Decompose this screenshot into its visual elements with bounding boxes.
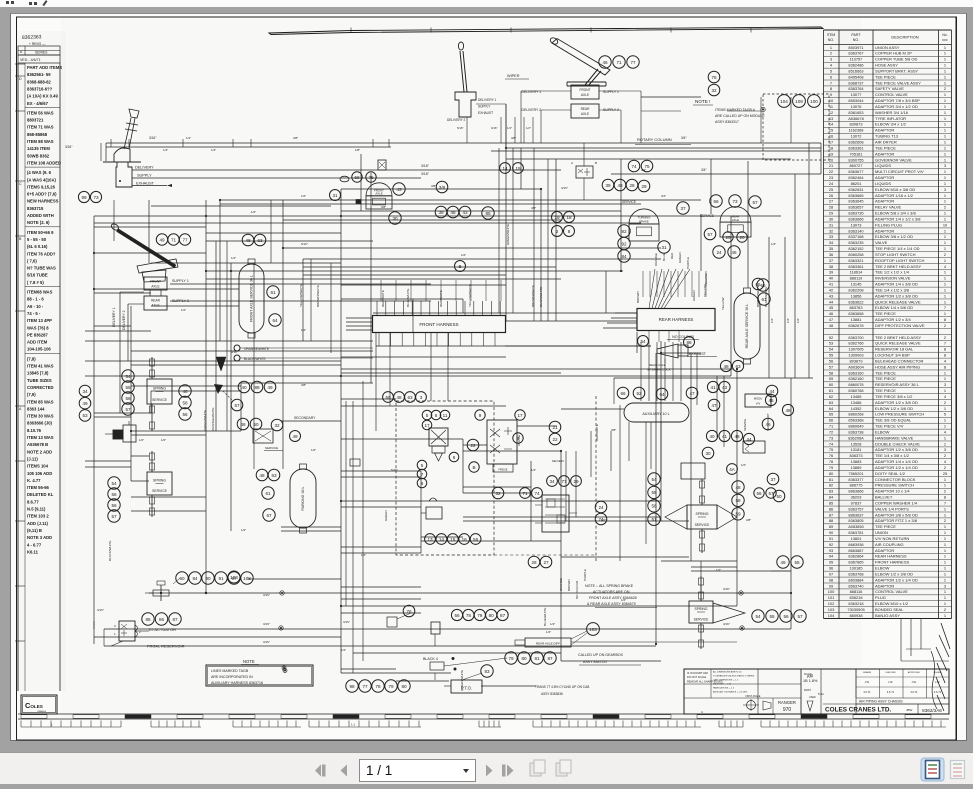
svg-text:1/2″: 1/2″ xyxy=(251,210,256,214)
svg-text:103: 103 xyxy=(230,575,238,580)
svg-text:1/4″: 1/4″ xyxy=(163,148,168,152)
svg-text:1/4″: 1/4″ xyxy=(231,256,236,260)
svg-text:4.6.71: 4.6.71 xyxy=(910,690,918,694)
svg-text:1: 1 xyxy=(944,276,946,281)
svg-text:8368-688-62: 8368-688-62 xyxy=(27,79,51,84)
svg-text:61: 61 xyxy=(270,290,276,295)
svg-text:CALLED UP ON GEARBOX: CALLED UP ON GEARBOX xyxy=(578,653,624,657)
svg-text:56: 56 xyxy=(111,503,117,508)
svg-text:SERVICE: SERVICE xyxy=(700,214,714,218)
svg-text:57: 57 xyxy=(768,491,774,496)
svg-text:8603884: 8603884 xyxy=(848,577,864,582)
svg-text:1: 1 xyxy=(944,92,946,97)
svg-text:8363361: 8363361 xyxy=(848,264,863,269)
svg-text:17: 17 xyxy=(829,139,833,144)
svg-text:5/16″: 5/16″ xyxy=(301,242,308,246)
svg-text:3/8″: 3/8″ xyxy=(511,136,516,140)
svg-text:73: 73 xyxy=(732,199,738,204)
svg-text:88: 88 xyxy=(829,518,833,523)
svg-text:HOSE ASSY: HOSE ASSY xyxy=(875,63,898,68)
svg-text:SUPPLY 1: SUPPLY 1 xyxy=(172,279,189,283)
svg-text:WIPER: WIPER xyxy=(507,74,520,78)
svg-text:48: 48 xyxy=(396,395,402,400)
svg-text:15: 15 xyxy=(829,128,833,133)
svg-text:30: 30 xyxy=(705,451,711,456)
svg-text:1/2″: 1/2″ xyxy=(301,328,306,332)
svg-text:SPRING: SPRING xyxy=(153,479,166,483)
svg-text:63: 63 xyxy=(271,473,277,478)
svg-text:2: 2 xyxy=(944,252,946,257)
svg-text:28: 28 xyxy=(629,183,635,188)
svg-text:RED: RED xyxy=(670,252,674,259)
svg-text:DELIVERY 1: DELIVERY 1 xyxy=(478,98,497,102)
svg-text:No.: No. xyxy=(942,33,947,37)
svg-text:14352: 14352 xyxy=(851,406,862,411)
svg-text:SERVICE: SERVICE xyxy=(695,523,711,527)
svg-text:PURPLE: PURPLE xyxy=(686,257,690,269)
svg-text:13528: 13528 xyxy=(851,441,862,446)
svg-text:74: 74 xyxy=(598,517,604,522)
svg-text:99: 99 xyxy=(81,195,87,200)
svg-text:1: 1 xyxy=(944,477,946,482)
svg-text:5: 5 xyxy=(944,412,946,417)
svg-text:30: 30 xyxy=(392,216,398,221)
svg-text:3/8″: 3/8″ xyxy=(293,136,298,140)
svg-text:53: 53 xyxy=(82,413,88,418)
svg-text:58: 58 xyxy=(182,400,188,405)
svg-text:1: 1 xyxy=(944,388,946,393)
svg-text:TO ACTUATOR: TO ACTUATOR xyxy=(148,627,176,632)
svg-text:893879: 893879 xyxy=(850,358,863,363)
svg-text:63: 63 xyxy=(735,364,741,369)
svg-text:1: 1 xyxy=(944,234,946,239)
svg-text:REAR: REAR xyxy=(151,299,161,303)
svg-text:2: 2 xyxy=(944,323,946,328)
svg-text:13881: 13881 xyxy=(851,317,862,322)
svg-text:13: 13 xyxy=(427,537,433,542)
svg-text:1: 1 xyxy=(944,311,946,316)
svg-text:3: 3 xyxy=(420,395,423,400)
svg-text:23: 23 xyxy=(829,175,833,180)
svg-text:1/2″: 1/2″ xyxy=(716,568,721,572)
svg-text:46: 46 xyxy=(731,250,737,255)
svg-text:ITEM 71 WAS: ITEM 71 WAS xyxy=(27,125,54,130)
svg-text:45: 45 xyxy=(768,398,774,403)
svg-text:INTERNAL LOCK: INTERNAL LOCK xyxy=(647,368,671,372)
svg-text:RANGER: RANGER xyxy=(778,700,796,705)
svg-text:3/8″: 3/8″ xyxy=(431,184,436,188)
svg-text:77: 77 xyxy=(630,60,636,65)
svg-text:CRANES: CRANES xyxy=(37,710,47,713)
svg-text:AXLE: AXLE xyxy=(151,304,159,308)
svg-text:80: 80 xyxy=(521,656,527,661)
svg-text:79: 79 xyxy=(477,613,483,618)
svg-text:1162368: 1162368 xyxy=(849,128,864,133)
svg-text:8563740: 8563740 xyxy=(848,583,864,588)
svg-text:2: 2 xyxy=(944,453,946,458)
svg-text:8: 8 xyxy=(568,229,571,234)
svg-text:NO.: NO. xyxy=(828,38,834,42)
svg-text:ELBOW 1/2 x 3/8 OD: ELBOW 1/2 x 3/8 OD xyxy=(875,406,913,411)
svg-text:79: 79 xyxy=(388,684,394,689)
svg-text:ASSY 8367237: ASSY 8367237 xyxy=(583,660,608,664)
svg-text:6+5 ADD? (7,6): 6+5 ADD? (7,6) xyxy=(27,192,57,197)
svg-text:ASSY 8363317: ASSY 8363317 xyxy=(715,120,739,124)
svg-text:8: 8 xyxy=(421,481,424,486)
svg-text:13145: 13145 xyxy=(851,282,862,287)
svg-text:15: 15 xyxy=(515,166,521,171)
svg-text:TEE 2 BRKT HELD ASSY: TEE 2 BRKT HELD ASSY xyxy=(875,335,921,340)
svg-text:65: 65 xyxy=(755,282,761,287)
svg-text:COPPER WASHER 1/4: COPPER WASHER 1/4 xyxy=(875,500,918,505)
svg-text:50: 50 xyxy=(253,422,259,427)
svg-text:1309003: 1309003 xyxy=(848,353,863,358)
svg-text:18: 18 xyxy=(829,145,833,150)
svg-text:82: 82 xyxy=(829,483,833,488)
svg-text:34: 34 xyxy=(549,479,555,484)
svg-text:56: 56 xyxy=(111,492,117,497)
svg-text:98: 98 xyxy=(829,577,833,582)
svg-text:2: 2 xyxy=(944,205,946,210)
svg-text:ELBOW M16 x 3/8 OD: ELBOW M16 x 3/8 OD xyxy=(875,187,915,192)
svg-text:HOSE ASSY AIR PIPING: HOSE ASSY AIR PIPING xyxy=(875,364,920,369)
svg-text:ADAPTOR 3/8 x 5/8 OD: ADAPTOR 3/8 x 5/8 OD xyxy=(875,512,918,517)
svg-text:3/4″: 3/4″ xyxy=(661,194,666,198)
svg-text:19: 19 xyxy=(829,151,833,156)
svg-text:ITEM 30 WAS: ITEM 30 WAS xyxy=(27,414,54,419)
svg-text:8362363: 8362363 xyxy=(22,34,42,41)
svg-text:12: 12 xyxy=(829,110,833,115)
svg-text:AUXILIARY 10 L: AUXILIARY 10 L xyxy=(642,412,669,416)
svg-text:FROM, RESERVOIR: FROM, RESERVOIR xyxy=(147,644,185,649)
svg-text:1: 1 xyxy=(944,512,946,517)
svg-text:RED/WHITE: RED/WHITE xyxy=(595,424,599,441)
svg-text:3/16″: 3/16″ xyxy=(65,145,73,149)
svg-text:YELLOW/WHITE: YELLOW/WHITE xyxy=(299,284,303,307)
svg-text:DO NOT SCALE: DO NOT SCALE xyxy=(687,675,707,679)
svg-text:(4 WAS (9. 6: (4 WAS (9. 6 xyxy=(27,170,52,175)
svg-text:8363645: 8363645 xyxy=(848,199,863,204)
svg-text:57: 57 xyxy=(829,364,833,369)
svg-text:QUICK RELEASE VALVE: QUICK RELEASE VALVE xyxy=(875,341,921,346)
svg-text:DOITY SEAL 1/2: DOITY SEAL 1/2 xyxy=(875,471,906,476)
svg-text:118614: 118614 xyxy=(850,270,864,275)
svg-text:71: 71 xyxy=(829,424,833,429)
svg-text:1: 1 xyxy=(944,282,946,287)
svg-text:8363622: 8363622 xyxy=(848,299,863,304)
svg-text:8362208: 8362208 xyxy=(848,287,863,292)
svg-text:MODU: MODU xyxy=(754,397,763,401)
svg-text:(J.11): (J.11) xyxy=(27,456,38,461)
svg-text:B: B xyxy=(595,161,597,165)
svg-text:4.6.71: 4.6.71 xyxy=(934,690,942,694)
svg-text:8553044: 8553044 xyxy=(848,98,864,103)
svg-text:ITEM 13 WAS: ITEM 13 WAS xyxy=(27,435,54,440)
svg-text:59: 59 xyxy=(385,395,391,400)
svg-text:ELBOW 1/2 x 3/8 OD: ELBOW 1/2 x 3/8 OD xyxy=(875,571,913,576)
svg-text:3/16″: 3/16″ xyxy=(723,587,730,591)
svg-text:45: 45 xyxy=(829,305,833,310)
svg-text:43: 43 xyxy=(829,293,833,298)
svg-text:87: 87 xyxy=(829,512,833,517)
svg-text:76: 76 xyxy=(829,453,833,458)
svg-text:INVERSION VALVE: INVERSION VALVE xyxy=(875,276,911,281)
svg-text:3: 3 xyxy=(944,187,946,192)
svg-text:NOTE 2 ADD: NOTE 2 ADD xyxy=(27,449,52,454)
svg-text:ADDED WITH: ADDED WITH xyxy=(27,213,54,218)
svg-text:DELIVERY 2: DELIVERY 2 xyxy=(447,118,466,122)
svg-text:COLES CRANES LTD.: COLES CRANES LTD. xyxy=(825,707,891,714)
svg-text:71: 71 xyxy=(171,237,177,242)
svg-text:49: 49 xyxy=(780,560,786,565)
svg-text:25: 25 xyxy=(725,235,731,240)
svg-text:15: 15 xyxy=(450,537,456,542)
svg-text:8: 8 xyxy=(944,364,946,369)
svg-text:2: 2 xyxy=(944,465,946,470)
svg-text:42: 42 xyxy=(829,287,833,292)
svg-text:ADAPTOR 1/2 x 3/8 OD: ADAPTOR 1/2 x 3/8 OD xyxy=(875,400,918,405)
svg-text:76: 76 xyxy=(406,609,412,614)
svg-text:1 / 1: 1 / 1 xyxy=(366,763,392,778)
svg-text:8363658: 8363658 xyxy=(848,311,863,316)
svg-text:54: 54 xyxy=(755,614,761,619)
svg-text:DRAWN: DRAWN xyxy=(863,671,872,674)
svg-text:84: 84 xyxy=(192,576,198,581)
svg-text:14: 14 xyxy=(439,537,445,542)
svg-text:SERVICE: SERVICE xyxy=(152,489,168,493)
svg-text:8363715: 8363715 xyxy=(27,206,44,211)
svg-text:1:1: 1:1 xyxy=(351,723,356,727)
svg-text:COPPER HUB M 2P: COPPER HUB M 2P xyxy=(875,51,912,56)
svg-text:NOTE: NOTE xyxy=(243,659,255,664)
svg-text:ADAPTOR 1/2 x 1/4 OD: ADAPTOR 1/2 x 1/4 OD xyxy=(875,465,918,470)
svg-text:1: 1 xyxy=(944,228,946,233)
svg-text:101: 101 xyxy=(828,595,835,600)
svg-text:80: 80 xyxy=(401,684,407,689)
svg-text:NOTE 3 ADD: NOTE 3 ADD xyxy=(27,535,52,540)
svg-text:TEE 1/4 x 3/8 x 1/2: TEE 1/4 x 3/8 x 1/2 xyxy=(875,453,910,458)
svg-text:54: 54 xyxy=(111,481,117,486)
svg-text:TEE PIECE V/V: TEE PIECE V/V xyxy=(875,424,904,429)
svg-text:APPROVED: APPROVED xyxy=(908,671,921,674)
svg-text:1: 1 xyxy=(944,80,946,85)
svg-text:(9,11) B: (9,11) B xyxy=(27,528,42,533)
svg-text:91: 91 xyxy=(218,576,224,581)
svg-text:1/2″: 1/2″ xyxy=(241,528,246,532)
svg-text:(A 10A) KX 0.49: (A 10A) KX 0.49 xyxy=(27,94,58,99)
svg-text:1/8″: 1/8″ xyxy=(355,148,360,152)
svg-text:TOLERANCES UNLESS STATED OTHER: TOLERANCES UNLESS STATED OTHERW xyxy=(713,675,754,678)
svg-text:75: 75 xyxy=(711,75,717,80)
svg-text:1: 1 xyxy=(944,74,946,79)
svg-text:1/2″: 1/2″ xyxy=(301,194,306,198)
svg-text:54: 54 xyxy=(125,374,131,379)
svg-text:37: 37 xyxy=(770,477,776,482)
svg-text:54: 54 xyxy=(651,477,657,482)
svg-text:1: 1 xyxy=(944,287,946,292)
svg-text:NOTE !: NOTE ! xyxy=(695,99,710,104)
svg-text:3/16″: 3/16″ xyxy=(561,186,568,190)
svg-text:18: 18 xyxy=(566,215,572,220)
svg-text:50WB 8362: 50WB 8362 xyxy=(27,153,50,158)
svg-text:ITEM 85 WAS: ITEM 85 WAS xyxy=(27,399,54,404)
svg-text:29: 29 xyxy=(573,479,579,484)
svg-text:1: 1 xyxy=(944,524,946,529)
svg-text:ADAPTOR: ADAPTOR xyxy=(875,175,894,180)
svg-text:8503971: 8503971 xyxy=(848,45,863,50)
svg-text:ITEMS MARKED TAGB #: ITEMS MARKED TAGB # xyxy=(715,108,755,112)
svg-text:104: 104 xyxy=(780,99,788,104)
svg-text:BROWN/WHITE: BROWN/WHITE xyxy=(756,285,760,307)
svg-text:63: 63 xyxy=(407,395,413,400)
svg-text:SPRING: SPRING xyxy=(696,512,709,516)
svg-text:ADAPTOR 1/4 x 3/8 OD: ADAPTOR 1/4 x 3/8 OD xyxy=(875,282,918,287)
svg-text:1: 1 xyxy=(944,589,946,594)
svg-text:ADAPTOR: ADAPTOR xyxy=(875,228,894,233)
svg-text:38: 38 xyxy=(829,264,833,269)
svg-text:32: 32 xyxy=(711,88,717,93)
svg-text:49: 49 xyxy=(159,237,165,242)
svg-text:1/2″: 1/2″ xyxy=(526,126,531,130)
svg-text:( 7,6): ( 7,6) xyxy=(27,258,37,263)
svg-text:1/4″: 1/4″ xyxy=(186,136,191,140)
svg-text:8362864: 8362864 xyxy=(848,554,864,559)
svg-text:49: 49 xyxy=(82,401,88,406)
svg-text:DELIVERY 1: DELIVERY 1 xyxy=(522,90,542,94)
svg-text:N? TUBE WAS: N? TUBE WAS xyxy=(27,266,56,271)
svg-text:3/16″: 3/16″ xyxy=(263,640,270,644)
svg-text:1: 1 xyxy=(51,723,53,727)
svg-text:1: 1 xyxy=(944,169,946,174)
svg-text:3/16″: 3/16″ xyxy=(723,622,730,626)
svg-text:TEE 2 BRKT HELD ASSY: TEE 2 BRKT HELD ASSY xyxy=(875,264,921,269)
svg-text:8363218: 8363218 xyxy=(848,601,863,606)
svg-text:8363764: 8363764 xyxy=(848,86,864,91)
svg-text:8860649: 8860649 xyxy=(848,424,863,429)
svg-text:1: 1 xyxy=(944,530,946,535)
svg-text:ORANGE: ORANGE xyxy=(559,578,563,591)
svg-text:22: 22 xyxy=(829,169,833,174)
svg-text:1: 1 xyxy=(944,116,946,121)
svg-text:8363666: 8363666 xyxy=(848,216,863,221)
svg-text:8363738: 8363738 xyxy=(848,429,863,434)
svg-text:SERVICE: SERVICE xyxy=(694,617,710,621)
svg-text:1/4″: 1/4″ xyxy=(361,553,366,557)
svg-text:7: 7 xyxy=(830,80,832,85)
svg-text:880938: 880938 xyxy=(850,613,863,618)
svg-text:1: 1 xyxy=(944,104,946,109)
svg-text:5 - 55 - 50: 5 - 55 - 50 xyxy=(27,237,47,242)
svg-text:79: 79 xyxy=(508,656,514,661)
svg-text:88: 88 xyxy=(686,340,692,345)
svg-text:B: B xyxy=(458,264,461,269)
svg-text:TYRE INFLATOR: TYRE INFLATOR xyxy=(875,116,906,121)
svg-text:3: 3 xyxy=(944,447,946,452)
svg-text:8363235: 8363235 xyxy=(848,240,863,245)
svg-text:ELBOW: ELBOW xyxy=(875,429,890,434)
svg-text:DESCRIPTION: DESCRIPTION xyxy=(891,35,918,40)
svg-text:1: 1 xyxy=(944,613,946,618)
svg-text:JBW: JBW xyxy=(906,708,913,712)
svg-text:13073: 13073 xyxy=(851,222,862,227)
svg-text:78: 78 xyxy=(375,684,381,689)
svg-text:80: 80 xyxy=(489,613,495,618)
svg-text:1: 1 xyxy=(944,45,946,50)
svg-text:56: 56 xyxy=(454,613,460,618)
svg-text:14135 ITEM: 14135 ITEM xyxy=(27,146,50,151)
svg-text:1/4″: 1/4″ xyxy=(211,148,216,152)
svg-text:NEW HARNESS: NEW HARNESS xyxy=(27,199,59,204)
svg-text:EXHAUST: EXHAUST xyxy=(689,352,707,356)
svg-text:11: 11 xyxy=(829,104,833,109)
svg-text:ADAPTOR 1/16 x 1/2: ADAPTOR 1/16 x 1/2 xyxy=(875,193,914,198)
svg-text:DELIVERS: DELIVERS xyxy=(552,460,564,463)
svg-text:SERVICE: SERVICE xyxy=(743,419,747,431)
svg-text:A: A xyxy=(571,161,573,165)
svg-text:PE 836287: PE 836287 xyxy=(27,332,48,337)
svg-text:3/16″: 3/16″ xyxy=(149,136,157,140)
svg-text:ITEM 103 2: ITEM 103 2 xyxy=(27,514,49,519)
svg-text:3/8″: 3/8″ xyxy=(381,205,386,209)
svg-text:FRONT AXLE ASSY 8364628: FRONT AXLE ASSY 8364628 xyxy=(589,596,637,600)
svg-text:886119: 886119 xyxy=(850,276,863,281)
svg-text:1/4″: 1/4″ xyxy=(786,318,790,323)
svg-text:3/8: 3/8 xyxy=(439,185,446,190)
svg-text:PURPLE: PURPLE xyxy=(583,569,587,581)
svg-text:SPRING: SPRING xyxy=(153,387,166,391)
svg-text:8360768: 8360768 xyxy=(848,388,863,393)
svg-text:CHECKED: CHECKED xyxy=(885,672,896,674)
svg-text:ITEMS 104: ITEMS 104 xyxy=(27,464,49,469)
svg-text:1: 1 xyxy=(944,181,946,186)
svg-text:AXLE: AXLE xyxy=(581,112,589,116)
svg-text:ELBOW: ELBOW xyxy=(875,566,890,571)
svg-text:1/2″: 1/2″ xyxy=(741,463,746,467)
svg-text:63: 63 xyxy=(257,238,263,243)
svg-text:GREEN/WHITE: GREEN/WHITE xyxy=(506,224,510,245)
svg-text:BLACK/WHITE: BLACK/WHITE xyxy=(764,287,768,307)
svg-text:USED: USED xyxy=(809,696,816,699)
svg-text:8363657: 8363657 xyxy=(848,205,863,210)
svg-text:4A: 4A xyxy=(729,467,736,472)
svg-text:NO COLOUR: NO COLOUR xyxy=(575,580,579,599)
svg-text:LIQUIDS: LIQUIDS xyxy=(875,181,891,186)
svg-text:8368737: 8368737 xyxy=(848,80,863,85)
svg-text:8: 8 xyxy=(944,347,946,352)
svg-text:REAR HARNESS: REAR HARNESS xyxy=(875,554,907,559)
svg-text:886775: 886775 xyxy=(850,483,863,488)
svg-text:1: 1 xyxy=(944,258,946,263)
svg-text:100: 100 xyxy=(810,99,818,104)
svg-text:1B 1.8%: 1B 1.8% xyxy=(803,679,818,683)
svg-text:1: 1 xyxy=(830,45,832,50)
svg-text:6: 6 xyxy=(435,413,438,418)
svg-text:13889: 13889 xyxy=(851,465,862,470)
svg-text:48: 48 xyxy=(182,389,188,394)
svg-text:VED - 4/6/71: VED - 4/6/71 xyxy=(20,58,41,62)
svg-text:SUPPLY 1: SUPPLY 1 xyxy=(603,90,619,94)
svg-text:6: 6 xyxy=(830,74,832,79)
svg-text:RELAY VALVE: RELAY VALVE xyxy=(875,205,901,210)
svg-text:ITEM 56-66: ITEM 56-66 xyxy=(27,485,50,490)
svg-text:71: 71 xyxy=(616,60,622,65)
svg-text:77: 77 xyxy=(561,479,567,484)
svg-text:ITEM68 WAS: ITEM68 WAS xyxy=(27,290,53,295)
svg-text:71: 71 xyxy=(522,491,528,496)
svg-text:ADAPTOR 3/4 x 1/2 OD: ADAPTOR 3/4 x 1/2 OD xyxy=(875,104,918,109)
svg-text:52: 52 xyxy=(829,335,833,340)
svg-text:31: 31 xyxy=(661,245,667,250)
